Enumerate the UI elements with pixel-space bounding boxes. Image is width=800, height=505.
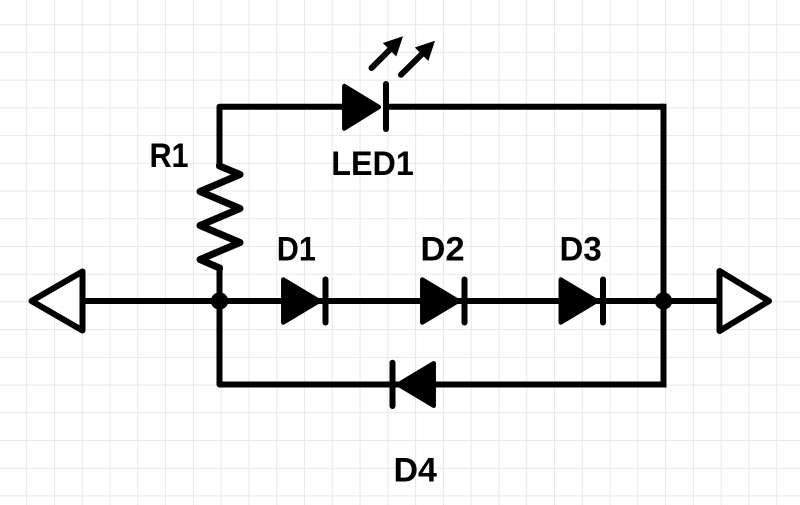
wire: main horizontal net [80, 298, 718, 304]
svg-text:D1: D1 [277, 230, 316, 268]
wire: bottom branch [220, 382, 664, 385]
svg-text:LED1: LED1 [331, 145, 414, 183]
node: right junction [655, 292, 672, 309]
wire: top-right segment from LED1 cathode to right riser [388, 104, 664, 110]
svg-text:R1: R1 [149, 137, 188, 175]
svg-text:D2: D2 [420, 231, 464, 269]
svg-text:D4: D4 [393, 452, 437, 490]
terminal: left port arrow [32, 272, 83, 331]
diode D4 [393, 363, 434, 406]
wire: top-left segment with corner to LED1 anode [220, 107, 347, 167]
diode D1 [283, 280, 325, 323]
resistor R1 [200, 164, 240, 270]
wire: right riser [661, 104, 667, 388]
LED LED1 [344, 36, 435, 129]
diode D3 [561, 280, 603, 323]
wire: left riser from R1 to bottom branch [217, 267, 223, 385]
svg-text:D3: D3 [560, 231, 602, 269]
terminal: right port arrow [720, 271, 770, 331]
diode D2 [422, 280, 464, 323]
node: left junction [211, 292, 228, 309]
